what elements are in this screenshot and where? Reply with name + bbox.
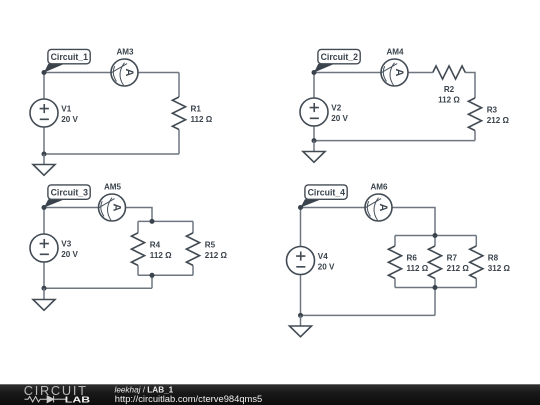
footer bar: [0, 384, 540, 405]
node c1 bottom: [42, 152, 47, 157]
ground c2: [303, 141, 325, 163]
voltage source V1: [30, 99, 58, 127]
wire am4 to r2: [408, 72, 433, 74]
wire top c4: [301, 207, 366, 209]
wire r2 to corner: [465, 73, 475, 99]
wire left upper c2: [313, 73, 315, 99]
svg-text:R6: R6: [407, 254, 418, 263]
ground c1: [33, 154, 55, 175]
svg-text:20 V: 20 V: [61, 250, 78, 259]
ground c4: [290, 315, 312, 336]
flag Circuit_1: [44, 49, 90, 72]
rail bottom c3: [138, 274, 193, 276]
svg-text:AM4: AM4: [386, 47, 404, 56]
svg-text:R4: R4: [150, 241, 161, 250]
logo diode: [47, 396, 53, 403]
flag Circuit_4: [301, 185, 348, 208]
resistor R8: [470, 246, 483, 279]
svg-text:V1: V1: [61, 105, 71, 114]
wire am6 to corner: [392, 208, 435, 236]
ammeter AM5: [98, 194, 126, 221]
svg-text:V4: V4: [318, 252, 328, 261]
svg-text:Circuit_4: Circuit_4: [308, 188, 346, 198]
r7 lead bottom: [434, 279, 436, 288]
r5 lead top: [192, 221, 194, 233]
r7 lead top: [434, 236, 436, 247]
wire top c3: [44, 207, 99, 209]
wire am5 to corner: [126, 208, 153, 222]
svg-text:20 V: 20 V: [331, 114, 348, 123]
r4 lead top: [137, 221, 139, 233]
svg-text:V2: V2: [331, 104, 341, 113]
wire bottom c4: [301, 314, 436, 316]
voltage source V3: [30, 234, 58, 262]
svg-text:112 Ω: 112 Ω: [438, 95, 460, 104]
wire rail to bottom c4: [434, 288, 436, 316]
svg-text:http://circuitlab.com/cterve98: http://circuitlab.com/cterve984qms5: [115, 393, 262, 404]
svg-text:R7: R7: [447, 254, 458, 263]
r8 lead top: [475, 236, 477, 247]
logo squiggle wire: [25, 397, 48, 402]
svg-text:AM6: AM6: [370, 182, 388, 191]
svg-text:112 Ω: 112 Ω: [191, 115, 213, 124]
wire left upper c4: [300, 208, 302, 247]
rail top c3: [138, 220, 193, 222]
svg-text:112 Ω: 112 Ω: [407, 264, 429, 273]
svg-text:LAB: LAB: [65, 395, 91, 405]
node c3 rail bottom: [150, 273, 155, 278]
node c2 top: [312, 70, 317, 75]
ground c3: [33, 288, 55, 310]
wire left upper c3: [43, 208, 45, 235]
ammeter AM3: [110, 59, 138, 86]
ammeter AM4: [380, 59, 408, 86]
voltage source V4: [287, 247, 315, 275]
rail bottom c4: [395, 287, 476, 289]
resistor R3: [468, 98, 481, 131]
node c4 rail bottom: [433, 285, 438, 290]
node c3 bottom: [42, 286, 47, 291]
wire bottom c3: [44, 287, 152, 289]
node c1 top: [42, 70, 47, 75]
node c4 bottom: [298, 313, 303, 318]
wire left lower c1: [43, 127, 45, 154]
node c4 top: [298, 205, 303, 210]
node c3 top: [42, 205, 47, 210]
r6 lead bottom: [394, 279, 396, 288]
svg-text:Circuit_2: Circuit_2: [321, 52, 359, 62]
r4 lead bottom: [137, 265, 139, 275]
r8 lead bottom: [475, 279, 477, 288]
wire top c1: [44, 72, 111, 74]
svg-text:AM3: AM3: [116, 47, 134, 56]
svg-text:212 Ω: 212 Ω: [205, 251, 228, 260]
wire right lower c1: [178, 130, 180, 155]
svg-text:312 Ω: 312 Ω: [488, 264, 511, 273]
r5 lead bottom: [192, 265, 194, 275]
svg-text:212 Ω: 212 Ω: [447, 264, 470, 273]
flag Circuit_2: [314, 49, 360, 72]
wire bottom c2: [314, 140, 475, 142]
svg-text:AM5: AM5: [104, 182, 122, 191]
node c3 rail top: [150, 219, 155, 224]
r6 lead top: [394, 236, 396, 247]
svg-text:20 V: 20 V: [61, 115, 78, 124]
wire top c2: [314, 72, 381, 74]
resistor R4: [131, 233, 144, 266]
node c2 bottom: [312, 138, 317, 143]
wire left lower c3: [43, 262, 45, 288]
svg-text:112 Ω: 112 Ω: [150, 251, 172, 260]
logo diode out wire: [54, 398, 66, 400]
wire bottom c1: [44, 153, 179, 155]
wire top right c1: [138, 72, 179, 74]
svg-text:R5: R5: [205, 241, 216, 250]
svg-text:R2: R2: [444, 85, 455, 94]
svg-text:212 Ω: 212 Ω: [487, 116, 510, 125]
svg-text:Circuit_3: Circuit_3: [51, 188, 89, 198]
wire left upper c1: [43, 73, 45, 100]
resistor R1: [172, 97, 185, 130]
resistor R5: [186, 233, 199, 266]
voltage source V2: [300, 98, 328, 126]
svg-text:R1: R1: [191, 105, 202, 114]
wire left lower c4: [300, 275, 302, 316]
wire left lower c2: [313, 126, 315, 141]
resistor R6: [388, 246, 401, 279]
ammeter AM6: [364, 194, 392, 221]
svg-text:20 V: 20 V: [318, 262, 335, 271]
wire right upper c1: [178, 73, 180, 98]
svg-text:R8: R8: [488, 254, 499, 263]
flag Circuit_3: [44, 185, 90, 208]
wire rail to bottom c3: [151, 275, 153, 288]
rail top c4: [395, 235, 476, 237]
node c4 rail top: [433, 233, 438, 238]
wire r3 to bottom: [474, 131, 476, 141]
svg-text:V3: V3: [61, 240, 71, 249]
svg-text:Circuit_1: Circuit_1: [51, 52, 89, 62]
resistor R2: [433, 66, 466, 79]
svg-text:R3: R3: [487, 105, 498, 114]
resistor R7: [428, 246, 441, 279]
